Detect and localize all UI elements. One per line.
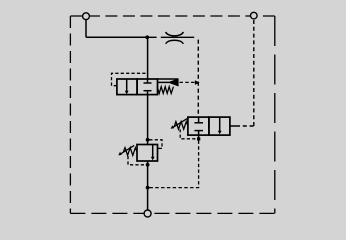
- throttle restriction upper arc: [166, 32, 184, 36]
- wire from port A down to tee: [85, 20, 87, 38]
- valve V1 pilot arrowhead: [195, 80, 200, 85]
- valve V1 return spring zigzag: [157, 87, 173, 94]
- valve V1 right position blocked port upper T: [144, 79, 152, 83]
- valve V2 right position flow path arrow down: [218, 117, 222, 134]
- wire main vertical from valve V1 bottom to relief valve top: [147, 95, 149, 145]
- enclosure dashed boundary bottom edge: [70, 212, 275, 214]
- wire main vertical line to valve V1 top port: [147, 37, 149, 79]
- valve V2 left position blocked port lower T: [194, 131, 203, 136]
- junction square node under valve V2: [197, 137, 200, 140]
- junction node below relief valve: [146, 163, 150, 167]
- port A circle top left: [83, 13, 90, 20]
- port B circle top right: [251, 12, 258, 19]
- relief valve RV body square: [137, 145, 158, 162]
- enclosure dashed boundary top edge: [70, 16, 275, 213]
- valve V2 bottom port stub: [198, 135, 200, 139]
- valve V1 pilot dashed line to vertical pilot with arrow: [180, 81, 195, 83]
- valve V2 body left position square: [188, 117, 209, 135]
- valve V2 spring drain dashed to bottom junction: [180, 129, 197, 139]
- relief valve RV internal arrow down: [151, 157, 155, 161]
- valve V1 right position blocked port lower T: [144, 91, 152, 95]
- drain line dashed up to port B: [253, 19, 255, 126]
- pilot line dashed down to valve V2 top port: [197, 40, 199, 118]
- valve V2 body right position square: [209, 117, 230, 135]
- junction node on main line for valve V2 drain: [146, 186, 150, 190]
- pilot line solid run under throttle: [161, 36, 194, 38]
- drain line dashed from valve V2 right port toward port B: [236, 125, 254, 127]
- valve V2 adjustable spring zigzag: [174, 122, 188, 130]
- valve V1 actuator pilot stub: [157, 81, 169, 83]
- junction node at main line and throttle branch: [145, 35, 149, 39]
- valve V1 actuator filled pilot triangle: [169, 79, 179, 86]
- valve V1 left position flow path arrow down: [125, 79, 129, 94]
- enclosure dashed boundary left edge: [69, 16, 71, 213]
- valve V2 spring adjustment arrow: [171, 119, 188, 129]
- pilot dashed from junction square down and left to main line: [148, 141, 199, 188]
- valve V2 right port solid stub: [230, 125, 236, 127]
- wire main vertical from relief valve bottom to port T: [147, 161, 149, 210]
- valve V1 body left position square: [117, 79, 137, 95]
- relief valve RV spring adjustment arrow: [118, 145, 134, 155]
- relief valve RV spring drain dashed to downstream node: [128, 156, 146, 165]
- valve V1 pilot loop dashed from left end to main line: [112, 73, 148, 85]
- junction node above relief valve: [146, 138, 150, 142]
- wire horizontal from port A to main node: [86, 36, 148, 38]
- relief valve RV internal line: [152, 145, 154, 158]
- valve V1 body right position square: [137, 79, 157, 95]
- relief valve RV adjustable spring zigzag: [123, 148, 137, 156]
- throttle restriction lower arc: [166, 40, 184, 44]
- enclosure dashed boundary right edge: [274, 16, 276, 213]
- relief valve RV pilot dashed from upstream node to right side: [149, 140, 162, 149]
- valve V1 actuator top line: [157, 78, 178, 80]
- port T circle bottom: [144, 210, 151, 217]
- valve V2 left position blocked port upper T: [194, 117, 203, 123]
- pilot line dash from node to throttle: [149, 36, 157, 38]
